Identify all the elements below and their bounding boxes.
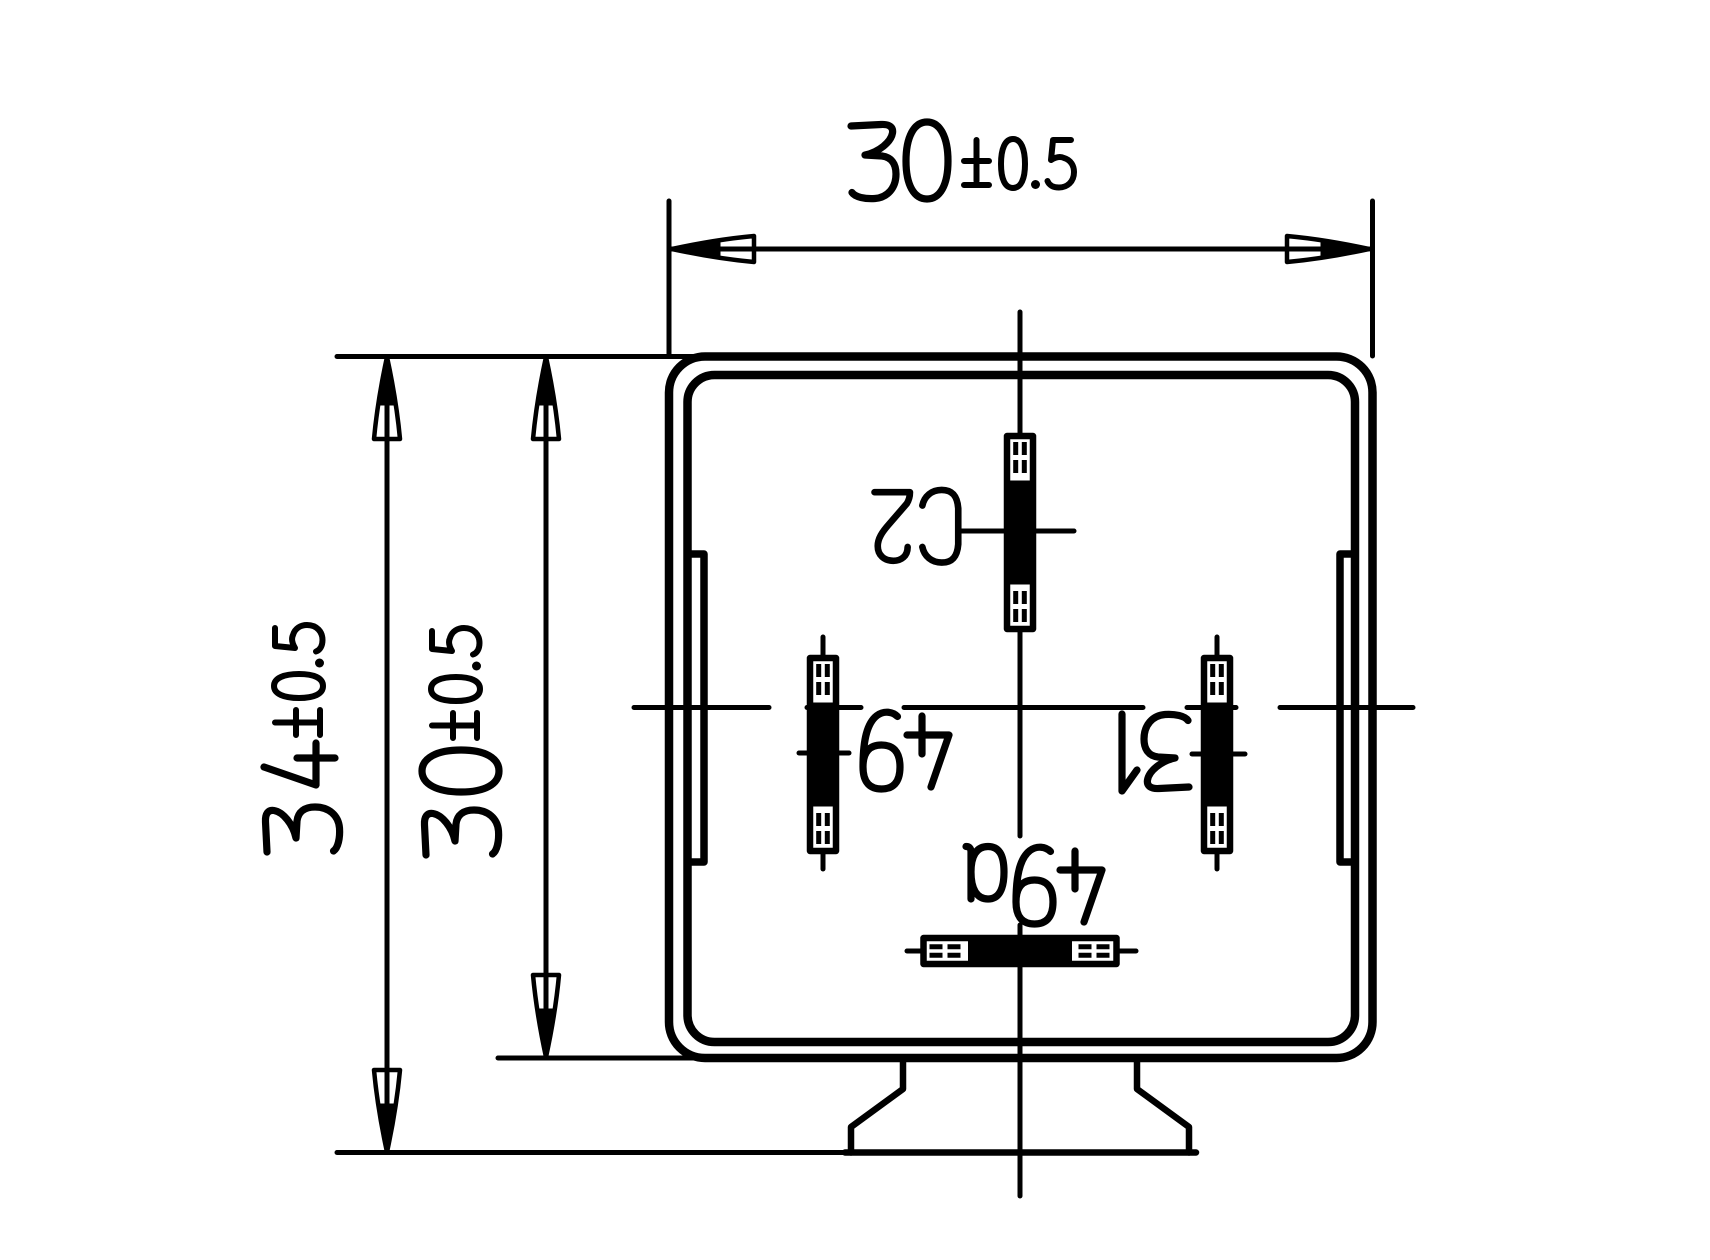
dimension text 30 +/-0.5 top	[851, 122, 1074, 199]
terminal blade 49	[810, 658, 836, 851]
dimension line 30 horizontal top	[672, 247, 1369, 252]
terminal blade 31	[1204, 658, 1230, 851]
pin 49 center tick	[799, 751, 849, 756]
dimension text 34 +/-0.5 left	[264, 625, 340, 852]
horizontal centerline dash at pin 31	[1187, 705, 1236, 710]
terminal blade 49a	[924, 938, 1117, 964]
pin 31 center tick	[1192, 752, 1245, 757]
relay housing outer outline	[669, 357, 1373, 1059]
terminal blade C2	[1007, 436, 1033, 629]
extension line top-dim left	[667, 201, 672, 356]
horizontal centerline segment far right	[1280, 705, 1413, 710]
pin 49a centerline horizontal	[907, 949, 1136, 954]
dimension line 30 vertical left	[544, 357, 549, 1057]
arrow top of dimension 30 (vertical)	[533, 357, 559, 439]
vertical centerline lower	[1018, 925, 1023, 1196]
arrow right of top dimension 30	[1287, 236, 1369, 262]
arrow left of top dimension 30	[672, 236, 754, 262]
horizontal centerline segment middle	[904, 705, 1143, 710]
arrow top of dimension 34	[374, 357, 400, 439]
dimension line 34 vertical left	[385, 357, 390, 1152]
horizontal centerline dash at pin 49	[807, 705, 861, 710]
relay housing inner outline	[688, 375, 1356, 1042]
pin 31 centerline vertical	[1215, 637, 1220, 869]
terminal label 31	[1122, 714, 1189, 791]
terminal label C2	[875, 490, 959, 563]
mounting foot right side	[1137, 1058, 1189, 1153]
vertical centerline upper	[1018, 312, 1023, 836]
mounting foot left side	[851, 1058, 903, 1153]
arrow bottom of dimension 30 (vertical)	[533, 975, 559, 1057]
pin 49 centerline vertical	[821, 637, 826, 869]
arrow bottom of dimension 34	[374, 1070, 400, 1152]
right wall slot	[1340, 554, 1355, 862]
mounting foot bottom edge	[845, 1149, 1196, 1156]
left wall slot	[688, 554, 705, 862]
extension line 34-dim bottom	[337, 1150, 845, 1155]
extension line 30-dim bottom	[498, 1056, 700, 1061]
extension line left-dims top	[337, 354, 700, 359]
extension line top-dim right	[1370, 201, 1375, 356]
terminal label 49	[863, 712, 949, 789]
dimension text 30 +/-0.5 left	[422, 628, 499, 855]
terminal label 49a	[966, 847, 1102, 925]
horizontal centerline segment far left	[634, 705, 769, 710]
pin C2 center tick	[961, 529, 1074, 534]
